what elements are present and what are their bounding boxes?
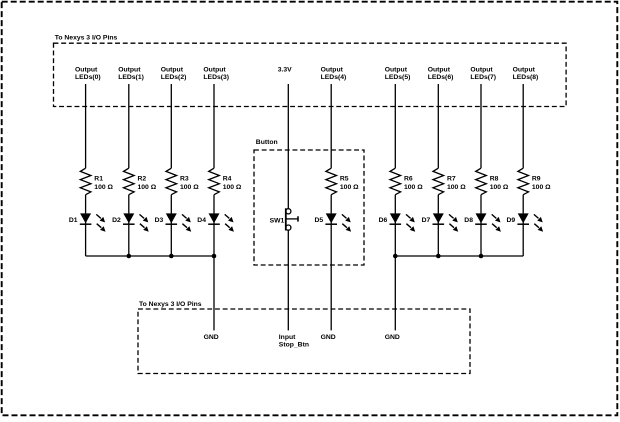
LED D3 [155,213,192,231]
svg-text:To Nexys 3 I/O Pins: To Nexys 3 I/O Pins [139,301,202,308]
LED D8 [464,213,501,231]
svg-text:D1: D1 [69,217,78,224]
wire D5 cathode to GND pin [330,224,332,330]
wire R2 to D2 [128,195,130,214]
svg-text:3.3V: 3.3V [278,67,292,74]
svg-text:LEDs(8): LEDs(8) [513,74,539,81]
wire D7 cathode to right GND bus [437,224,439,256]
LED D6 [379,213,416,231]
wire R7 to D7 [437,195,439,214]
svg-text:LEDs(2): LEDs(2) [161,74,187,81]
wire D1 cathode to left GND bus [85,224,87,256]
wire R6 to D6 [394,195,396,214]
wire D9 cathode to right GND bus [522,224,524,256]
wire 3.3V from top box to SW1 [287,84,289,209]
wire LEDs(8) from top box to R9 [522,84,524,168]
svg-text:LEDs(0): LEDs(0) [75,74,101,81]
wire D8 cathode to right GND bus [480,224,482,256]
svg-text:LEDs(6): LEDs(6) [428,74,454,81]
svg-text:GND: GND [204,334,219,341]
pushbutton SW1 [270,208,298,230]
connector box: To Nexys 3 I/O Pins (bottom) [138,309,470,374]
svg-text:100 Ω: 100 Ω [340,184,359,191]
svg-text:R6: R6 [404,176,413,183]
dashed box: Button [254,150,364,265]
svg-text:Button: Button [256,139,278,146]
svg-text:Input: Input [279,334,296,341]
svg-text:LEDs(4): LEDs(4) [321,74,347,81]
wire LEDs(0) from top box to R1 [85,84,87,168]
junction at x=438.3 on GND bus [436,254,441,259]
wire LEDs(4) from top box to R5 [330,84,332,168]
svg-text:D2: D2 [112,217,121,224]
svg-text:R4: R4 [223,176,232,183]
svg-text:100 Ω: 100 Ω [532,184,551,191]
junction at x=171.3 on GND bus [169,254,174,259]
svg-text:GND: GND [321,334,336,341]
svg-text:R5: R5 [340,176,349,183]
wire LEDs(6) from top box to R7 [437,84,439,168]
svg-text:LEDs(7): LEDs(7) [470,74,496,81]
svg-text:R1: R1 [94,176,103,183]
wire D6 cathode through bus down to GND pin [394,224,396,330]
svg-text:Output: Output [161,67,184,74]
LED D7 [422,213,459,231]
svg-text:100 Ω: 100 Ω [138,184,157,191]
LED D9 [506,213,543,231]
resistor R2 100 ohm [124,168,157,195]
wire LEDs(1) from top box to R2 [128,84,130,168]
svg-text:100 Ω: 100 Ω [223,184,242,191]
svg-text:R8: R8 [490,176,499,183]
wire R9 to D9 [522,195,524,214]
svg-text:D6: D6 [379,217,388,224]
svg-text:D7: D7 [422,217,431,224]
junction at x=214.0 on GND bus [212,254,217,259]
wire LEDs(2) from top box to R3 [170,84,172,168]
wire LEDs(3) from top box to R4 [213,84,215,168]
LED D2 [112,213,149,231]
junction at x=481.0 on GND bus [479,254,484,259]
svg-text:D4: D4 [197,217,206,224]
svg-text:Output: Output [118,67,141,74]
LED D4 [197,213,234,231]
svg-text:LEDs(1): LEDs(1) [118,74,144,81]
wire R3 to D3 [170,195,172,214]
resistor R7 100 ohm [433,168,466,195]
wire R5 to D5 [330,195,332,214]
svg-text:R3: R3 [180,176,189,183]
resistor R4 100 ohm [209,168,242,195]
svg-text:To Nexys 3 I/O Pins: To Nexys 3 I/O Pins [55,35,118,42]
junction at x=128.8 on GND bus [127,254,132,259]
svg-text:GND: GND [385,334,400,341]
svg-text:LEDs(5): LEDs(5) [385,74,411,81]
svg-text:Output: Output [75,67,98,74]
svg-text:100 Ω: 100 Ω [404,184,423,191]
svg-text:Output: Output [428,67,451,74]
wire SW1 to Input Stop_Btn [287,230,289,330]
svg-text:100 Ω: 100 Ω [180,184,199,191]
connector box: To Nexys 3 I/O Pins (top) [54,43,567,106]
wire right GND bus [395,255,523,257]
wire R8 to D8 [480,195,482,214]
svg-text:100 Ω: 100 Ω [490,184,509,191]
junction at x=395.3 on GND bus [393,254,398,259]
resistor R1 100 ohm [80,168,113,195]
wire D4 cathode through bus down to GND pin [213,224,215,330]
svg-text:D8: D8 [464,217,473,224]
svg-text:Output: Output [513,67,536,74]
svg-text:Output: Output [385,67,408,74]
resistor R3 100 ohm [166,168,199,195]
svg-text:SW1: SW1 [270,217,285,224]
resistor R6 100 ohm [390,168,423,195]
svg-text:R9: R9 [532,176,541,183]
svg-text:100 Ω: 100 Ω [447,184,466,191]
resistor R9 100 ohm [518,168,551,195]
LED D1 [69,213,106,231]
svg-text:Output: Output [321,67,344,74]
LED D5 [314,213,351,231]
svg-text:100 Ω: 100 Ω [94,184,113,191]
wire R1 to D1 [85,195,87,214]
wire left GND bus [86,255,214,257]
svg-text:D5: D5 [314,217,323,224]
wire LEDs(5) from top box to R6 [394,84,396,168]
svg-text:LEDs(3): LEDs(3) [203,74,229,81]
svg-text:R2: R2 [138,176,147,183]
resistor R8 100 ohm [476,168,509,195]
svg-text:Stop_Btn: Stop_Btn [279,341,309,348]
resistor R5 100 ohm [326,168,359,195]
wire LEDs(7) from top box to R8 [480,84,482,168]
svg-text:D3: D3 [155,217,164,224]
svg-text:D9: D9 [506,217,515,224]
svg-text:R7: R7 [447,176,456,183]
wire D2 cathode to left GND bus [128,224,130,256]
svg-text:Output: Output [203,67,226,74]
svg-text:Output: Output [470,67,493,74]
wire D3 cathode to left GND bus [170,224,172,256]
wire R4 to D4 [213,195,215,214]
